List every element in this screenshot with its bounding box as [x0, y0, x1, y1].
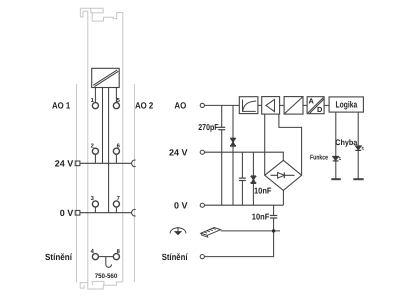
svg-text:10nF: 10nF	[254, 186, 272, 196]
converter diagonal	[93, 70, 118, 87]
earth shield symbol	[170, 228, 186, 234]
wire bridge bottom	[282, 190, 284, 205]
contact 7	[113, 201, 119, 207]
contact 6	[113, 148, 119, 154]
jumper contact square 0V	[75, 210, 80, 215]
wire 0V field	[80, 212, 132, 214]
LED funkce	[333, 156, 339, 160]
converter box U1	[92, 68, 120, 87]
jumper contact square 24V	[75, 161, 80, 166]
svg-text:Stínění: Stínění	[45, 252, 72, 262]
wire	[280, 104, 285, 106]
suppressor diode D2	[251, 176, 256, 184]
wire 270pF branch bottom	[221, 130, 223, 206]
svg-text:24 V: 24 V	[55, 159, 74, 169]
adjacent module edge right	[133, 84, 135, 282]
contact 3	[92, 201, 98, 207]
LED chyba	[355, 146, 361, 150]
wire bridge right feed	[279, 114, 302, 175]
ground bar funkce	[331, 178, 341, 180]
filter block	[239, 97, 258, 114]
wire	[258, 104, 262, 106]
shield clamp hook	[106, 257, 112, 268]
wire suppressor2 branch	[252, 152, 254, 205]
contact 8	[113, 254, 119, 260]
capacitor 10nF2	[270, 215, 277, 217]
junction node shield	[272, 229, 275, 232]
capacitor 270pF	[218, 126, 225, 128]
wire suppressor1 branch	[232, 105, 234, 205]
wire 270pF branch top	[221, 105, 223, 127]
module housing top profile	[80, 7, 103, 9]
svg-text:24 V: 24 V	[169, 147, 188, 157]
svg-text:Chyba: Chyba	[335, 138, 357, 147]
wire cap 10nF2 top	[273, 205, 275, 215]
wire pin2 stub	[94, 154, 96, 163]
wire logika pin funkce	[335, 112, 337, 179]
adjacent module edge left	[76, 84, 78, 282]
svg-text:8: 8	[117, 248, 121, 255]
svg-text:7: 7	[117, 196, 120, 202]
bridge diode	[271, 174, 295, 176]
contact 2	[92, 148, 98, 154]
isolator block	[284, 97, 303, 115]
svg-text:Stínění: Stínění	[162, 252, 188, 262]
wire Stineni	[204, 231, 273, 257]
jumper contact arc 0V	[132, 209, 136, 216]
wire internal 24V	[102, 88, 104, 164]
svg-text:Funkce: Funkce	[310, 154, 328, 162]
suppressor diode D1	[231, 138, 236, 146]
svg-text:6: 6	[117, 142, 121, 149]
svg-text:AO: AO	[174, 101, 186, 111]
jumper contact arc 24V	[132, 160, 136, 167]
svg-text:0 V: 0 V	[60, 208, 74, 218]
Logika block	[329, 97, 363, 112]
wire pin5	[115, 88, 117, 103]
wire 24V field	[80, 162, 132, 164]
wire shield bus	[221, 230, 280, 232]
ground bar chyba	[353, 178, 363, 180]
svg-text:10nF: 10nF	[252, 212, 269, 222]
bridge rectifier	[265, 160, 302, 190]
wire	[303, 104, 307, 106]
wire internal 0V	[108, 88, 110, 213]
contact 1	[92, 103, 98, 109]
terminal AO	[200, 103, 204, 107]
module housing bottom profile	[80, 283, 88, 289]
wire AO	[204, 104, 239, 106]
wire pin7 stub	[115, 207, 117, 213]
svg-text:D: D	[317, 105, 323, 114]
terminal 24V	[200, 150, 204, 154]
wire pin6 stub	[115, 154, 117, 163]
terminal 0V	[200, 203, 204, 207]
svg-text:Logika: Logika	[336, 99, 358, 109]
wire cap 10nF2 bottom	[273, 218, 275, 231]
svg-text:AO 1: AO 1	[52, 101, 70, 111]
wire shield 4-8	[98, 256, 113, 258]
amplifier block	[262, 97, 280, 115]
svg-text:AO 2: AO 2	[135, 101, 153, 111]
terminal Stineni	[200, 255, 204, 259]
contact 5	[113, 103, 119, 109]
wire cap 10nF branch top	[241, 152, 243, 178]
wire cap 10nF branch bottom	[241, 181, 243, 206]
wire logika pin chyba	[357, 112, 359, 179]
capacitor 10nF	[239, 177, 246, 179]
wire 24V	[204, 152, 283, 160]
shield clamp plate	[201, 228, 221, 236]
svg-text:5: 5	[117, 98, 121, 104]
svg-text:0 V: 0 V	[174, 200, 188, 210]
A/D converter block	[307, 97, 324, 114]
svg-text:750-560: 750-560	[95, 273, 118, 280]
wire pin3 stub	[94, 207, 96, 213]
wire 0V	[204, 204, 283, 206]
wire pin1	[94, 88, 96, 103]
contact 4	[92, 254, 98, 260]
svg-text:A: A	[309, 96, 315, 105]
svg-text:270pF: 270pF	[198, 122, 218, 132]
wire bridge left feed	[264, 114, 266, 175]
wire	[324, 104, 329, 106]
svg-text:2: 2	[91, 142, 94, 149]
